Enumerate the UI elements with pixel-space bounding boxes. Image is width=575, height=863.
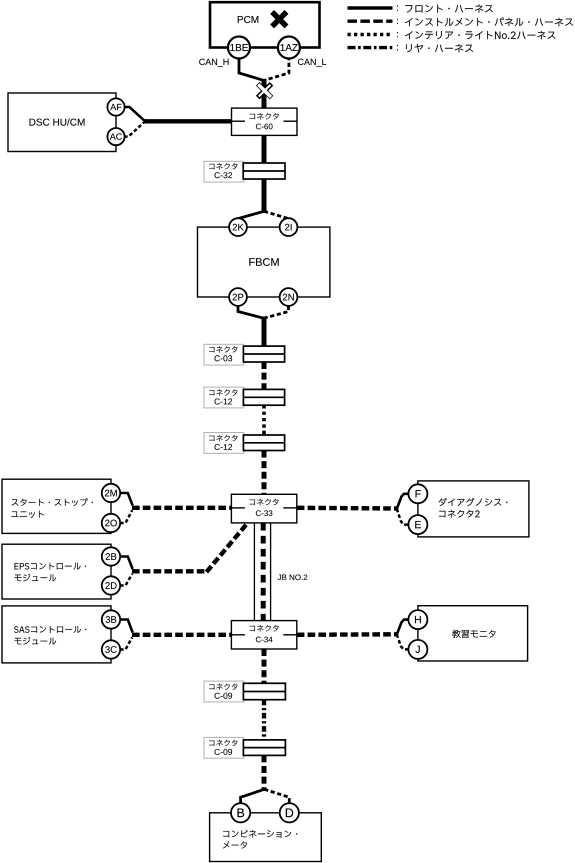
net label CAN_H (199, 59, 228, 67)
wire splice to pin H (solid) (397, 620, 410, 635)
junction block JB NO.2 right rail (270, 523, 272, 621)
wire splice to FBCM pin 2I (dashed) (264, 211, 289, 218)
connector C-12 upper label (209, 389, 237, 395)
connector C-12 upper label box (204, 387, 244, 408)
module diagnosis connector 2 box (418, 481, 529, 537)
trunk wire C-12 to C-33 (dashed) (262, 451, 267, 495)
module start-stop unit box (2, 479, 111, 533)
label training monitor (452, 630, 495, 638)
label FBCM (249, 258, 278, 266)
connector C-33 label (250, 499, 279, 506)
connector C-09 upper box (243, 683, 285, 699)
label EPS control module line2 (14, 574, 56, 581)
pin 2B of EPS module (102, 547, 120, 565)
connector C-33 side ticks (231, 507, 245, 509)
label combination meter line1 (223, 830, 297, 838)
wire splice to pin F (solid) (397, 494, 409, 509)
connector C-32 label (209, 163, 237, 169)
trunk wire C-09 to combination meter splice (dashed) (262, 755, 267, 791)
pin 2K of FBCM (229, 218, 247, 236)
connector C-03 box (243, 346, 284, 362)
pin D of combination meter (280, 803, 299, 822)
wire from pin 2M to splice (solid) (120, 493, 133, 506)
wire splice to FBCM pin 2K (solid) (238, 211, 264, 218)
pin F of diagnosis connector 2 (408, 484, 427, 503)
no-connection X mark on trunk wire (257, 83, 272, 98)
label JB NO.2 (278, 574, 308, 580)
pin 1BE of PCM (228, 37, 250, 59)
trunk wire C-33 to C-34 through JB NO.2 (dashed) (261, 523, 266, 621)
wire splice to pin J (dashed) (397, 635, 410, 650)
module training monitor box (418, 606, 528, 661)
trunk wire splice to connector C-60 (262, 79, 267, 109)
connector C-09 upper label (209, 684, 237, 690)
wire splice to meter pin D (dashed) (264, 789, 289, 804)
label DSC HU/CM (29, 118, 84, 125)
label PCM (238, 16, 259, 23)
connector C-33 box (231, 494, 296, 523)
wire FBCM pin 2N to splice (dashed) (265, 306, 289, 318)
wire from pin AC to splice (dashed) (124, 122, 144, 136)
module FBCM box (198, 227, 330, 297)
connector C-60 box (232, 108, 298, 135)
wire EPS diagonal run to C-33 (dashed) (207, 523, 249, 573)
pin H of training monitor (408, 610, 427, 629)
label diagnosis connector 2 line1 (439, 498, 508, 506)
connector C-12 upper box (243, 389, 284, 405)
label combination meter line2 (223, 841, 247, 848)
module DSC HU/CM box (8, 93, 116, 152)
wire from pin 2O to splice (dashed) (120, 510, 132, 523)
connector C-12 lower label (209, 435, 237, 441)
connector C-12 lower label box (204, 433, 244, 454)
pin 3B of SAS module (102, 610, 120, 628)
trunk wire C-12 to C-12 (interior light No.2 harness dotted) (262, 405, 266, 435)
label start-stop unit line1 (12, 498, 93, 506)
label diagnosis connector 2 line2 (439, 510, 480, 518)
wire SAS splice to C-34 (dashed) (132, 633, 232, 637)
wire from pin 2D to splice (dashed) (120, 574, 132, 586)
connector C-32 label box (204, 161, 244, 182)
trunk wire C-32 to FBCM splice (solid) (262, 179, 267, 213)
legend label: rear harness (396, 45, 399, 50)
trunk wire C-34 to C-09 (dashed) (262, 649, 267, 683)
legend line sample: instrument panel harness (dashed) (348, 20, 393, 23)
connector C-03 label box (204, 344, 244, 365)
connector C-34 label (250, 625, 279, 632)
connector C-60 side ticks (232, 120, 246, 122)
legend line sample: rear harness (dash-dot) (348, 46, 393, 49)
label SAS control module line1 (14, 626, 86, 633)
pin J of training monitor (408, 640, 427, 659)
pin 1AZ of PCM (278, 37, 300, 59)
pin 2I of FBCM (280, 218, 298, 236)
connector C-09 lower label box (204, 737, 244, 758)
pin AC of DSC HU/CM (107, 128, 124, 145)
pin 2D of EPS module (102, 576, 120, 594)
wire CAN_L from pin 1AZ to splice (dashed) (265, 56, 289, 80)
legend label: interior light No.2 harness (396, 32, 399, 37)
wire from pin 2B to splice (solid) (120, 557, 133, 570)
wire C-33 to diagnosis splice (dashed) (297, 506, 397, 511)
trunk wire C-60 to C-32 (solid front harness) (262, 136, 267, 165)
connector C-03 label (209, 346, 237, 352)
pin 2N of FBCM (280, 288, 298, 306)
pin 2P of FBCM (229, 288, 247, 306)
pin 3C of SAS module (102, 640, 120, 658)
connector C-60 label (250, 113, 279, 120)
connector C-34 box (231, 621, 296, 649)
legend line sample: interior light No.2 harness (dotted) (348, 33, 393, 36)
pin 2M of start-stop unit (102, 484, 120, 502)
wire from pin 3B to splice (solid) (120, 620, 133, 633)
wire C-34 to monitor splice (dashed) (297, 632, 397, 637)
wire splice to pin E (dashed) (397, 509, 409, 525)
trunk wire C-09 to C-09 (rear harness dash-dot) (262, 700, 266, 740)
junction block JB NO.2 left rail (253, 523, 255, 621)
connector C-32 box (243, 163, 285, 179)
label SAS control module line2 (14, 637, 56, 644)
wire from pin 3C to splice (dashed) (120, 637, 132, 649)
pin AF of DSC HU/CM (107, 98, 124, 115)
wire from pin AF to splice (solid) (124, 107, 145, 121)
legend label: instrument panel harness (396, 19, 399, 24)
wire DSC splice to connector C-60 (front harness solid) (144, 119, 232, 123)
wire start-stop splice to C-33 (dashed) (132, 506, 232, 510)
module EPS control module box (2, 544, 111, 599)
label EPS control module line1 (15, 563, 87, 570)
legend label: front harness (396, 6, 399, 11)
wire splice to meter pin B (solid) (241, 789, 265, 804)
wire FBCM pin 2P to splice (solid) (238, 306, 264, 318)
trunk wire FBCM splice to C-03 (solid) (262, 317, 267, 348)
label start-stop unit line2 (11, 511, 43, 518)
no-connection X mark inside PCM (270, 10, 288, 28)
wire CAN_H from pin 1BE to splice (solid front harness) (239, 56, 264, 80)
connector C-12 lower box (243, 435, 284, 451)
connector C-09 lower box (243, 740, 285, 756)
module SAS control module box (2, 606, 111, 663)
connector C-34 side ticks (231, 634, 245, 636)
module combination meter box (210, 813, 322, 862)
net label CAN_L (298, 59, 326, 67)
connector C-09 lower label (209, 740, 237, 746)
module PCM box (210, 2, 320, 47)
pin B of combination meter (231, 803, 250, 822)
wire EPS splice horizontal run (dashed) (132, 569, 208, 573)
legend line sample: front harness (solid) (348, 6, 393, 9)
connector C-09 upper label box (204, 681, 244, 702)
pin 2O of start-stop unit (102, 514, 120, 532)
trunk wire C-03 to C-12 (instrument panel harness dashed) (262, 362, 267, 389)
pin E of diagnosis connector 2 (408, 515, 427, 534)
